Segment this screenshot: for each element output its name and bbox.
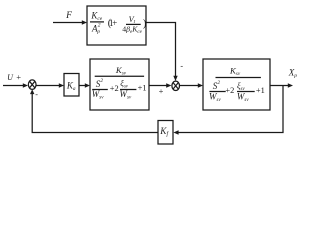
svg-text:): ) [143, 18, 147, 29]
block U1 disturbance (Kce/Ap^2)(1+Vt/4BeKce) [87, 6, 147, 45]
block U2 servo valve Ksv/(S^2/Wsv+2 xi/Wsv+1) [90, 59, 149, 110]
wire valve to S2 [149, 83, 171, 87]
svg-text:+2: +2 [225, 86, 234, 95]
svg-text:+: + [16, 72, 21, 82]
svg-text:+1: +1 [256, 86, 265, 95]
svg-text:-: - [180, 61, 183, 70]
wire S1 to Ka [36, 83, 64, 87]
wire output Xp [270, 83, 293, 87]
svg-text:F: F [65, 11, 72, 21]
wire Ka to servo valve block [79, 83, 90, 87]
svg-text:+: + [159, 86, 164, 96]
block U3 cylinder Ksv/(S^2/Wsv+2 xi/Wsv+1) [203, 59, 270, 110]
block Ka amplifier [64, 74, 79, 97]
svg-text:A2p: A2p [91, 23, 101, 36]
svg-text:+2: +2 [110, 84, 119, 93]
summing junction S2 [172, 81, 180, 90]
svg-text:-: - [35, 90, 38, 99]
wire output tap down to feedback [173, 86, 283, 135]
svg-text:(1+: (1+ [108, 18, 117, 29]
block Kf feedback gain [158, 121, 173, 145]
wire U input [3, 83, 28, 87]
summing junction S1 [28, 80, 36, 90]
wire F input [53, 20, 87, 24]
wire top block to summing junction S2 [146, 23, 178, 82]
svg-text:+1: +1 [138, 84, 147, 93]
wire S2 to cylinder block [180, 83, 203, 87]
wire Kf to S1 [30, 89, 158, 132]
